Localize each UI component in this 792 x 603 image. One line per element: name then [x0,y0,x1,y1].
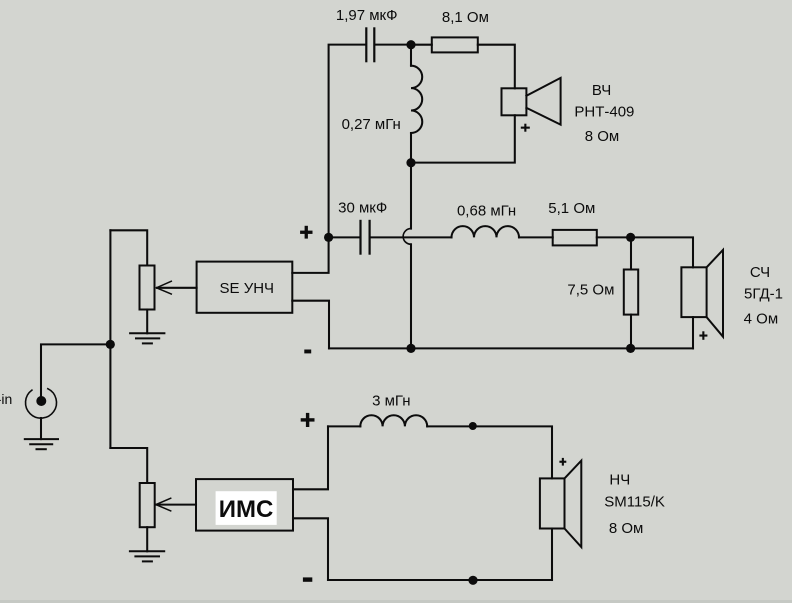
inductor L2 0,68 мГн [452,226,520,237]
speaker BA2 СЧ driver [681,250,723,337]
wire tweeter branch down with hop [403,163,411,349]
label + midrange [699,331,707,340]
wire jack pin to input node [41,344,110,399]
node A [406,40,415,49]
svg-text:РНТ-409: РНТ-409 [574,104,634,121]
wire woofer + rail to L3 [328,425,360,427]
svg-text:5ГД-1: 5ГД-1 [744,286,783,303]
input jack J1 [26,389,57,418]
wire pot1 to ground [146,310,148,334]
node input junction [106,340,115,349]
wire node A to R1 [411,44,432,46]
wire input bus vertical [109,230,111,448]
wire tweeter feed riser [329,45,366,238]
wire woofer return [551,529,553,581]
ground under jack [25,439,58,449]
wire L3 to woofer [427,426,552,478]
speaker BA3 НЧ driver [540,461,581,547]
svg-text:8 Ом: 8 Ом [585,128,620,145]
capacitor C1 1,97 мкФ [366,28,374,61]
svg-text:8 Ом: 8 Ом [609,520,644,537]
wire U1 + output [292,237,328,273]
svg-text:30 мкФ: 30 мкФ [338,200,387,217]
wire C1 to node A [375,44,411,46]
label + mid [300,226,312,239]
node B [406,158,415,167]
wire jack sleeve to ground [40,418,42,439]
wire midrange return [692,317,694,348]
label + low [301,413,315,427]
svg-text:8,1 Ом: 8,1 Ом [442,9,489,26]
wire pot2 wiper arrow to U2 [156,498,196,511]
capacitor C2 30 мкФ [361,221,370,254]
node mid rail tweeter junction [406,344,415,353]
svg-text:СЧ: СЧ [750,264,770,281]
wire R3 to node D [630,315,632,349]
svg-text:0,68 мГн: 0,68 мГн [457,203,516,220]
svg-text:ВЧ: ВЧ [592,82,611,99]
inductor L3 3 мГн [360,415,427,426]
wire R1 to tweeter [478,45,515,89]
ground under pot1 [130,333,164,343]
svg-text:1,97 мкФ: 1,97 мкФ [336,7,398,24]
svg-text:НЧ: НЧ [609,471,630,488]
potentiometer RP1 [140,266,155,310]
label - mid [304,350,311,354]
op-amp U1 SE УНЧ [197,262,293,313]
node D [626,344,635,353]
node C [626,233,635,242]
wire C2 to L2 [371,236,452,238]
ground under pot2 [130,551,164,561]
wire mid - rail [329,347,693,349]
wire tweeter return [411,115,515,162]
node woofer - rail [468,576,477,585]
resistor R3 7,5 Ом [624,270,638,315]
svg-text:SE УНЧ: SE УНЧ [220,280,275,297]
wire bus to pot1 top [110,230,147,265]
resistor R2 5,1 Ом [553,230,597,246]
inductor L1 0,27 мГн [411,45,422,163]
wire pot1 wiper arrow to amp U1 [157,281,197,294]
wire woofer - rail [328,579,552,581]
bottom edge band [0,600,792,603]
svg-text:5,1 Ом: 5,1 Ом [548,200,595,217]
op-amp U2 ИМС [196,479,293,530]
wire U2 + output [293,426,328,489]
svg-text:4 Ом: 4 Ом [744,311,779,328]
wire node C to midrange speaker [631,237,693,267]
potentiometer RP2 [140,483,155,527]
resistor R1 8,1 Ом [432,37,478,52]
svg-text:3 мГн: 3 мГн [372,393,410,410]
svg-text:SM115/K: SM115/K [604,494,665,511]
svg-text:0,27 мГн: 0,27 мГн [342,116,401,133]
wire L2 to R2 [519,236,553,238]
svg-text:7,5 Ом: 7,5 Ом [567,282,614,299]
svg-text:-in: -in [0,391,12,407]
node woofer + rail [469,422,477,430]
label + woofer [559,458,566,466]
speaker BA1 ВЧ driver [502,78,561,125]
label amplifier U2 ИМС [216,491,277,525]
wire pot2 to ground [146,527,148,551]
node mid + terminal [324,233,333,242]
wire node C to R3 [630,237,632,269]
wire bus jog to pot2 [110,448,147,483]
wire R2 to node C [597,236,631,238]
label + tweeter [521,124,530,132]
wire mid + rail to C2 [329,236,360,238]
svg-text:ИМС: ИМС [219,496,274,523]
label - low [303,577,312,581]
wire U1 - output [292,301,329,349]
wire U2 - output [293,518,328,580]
